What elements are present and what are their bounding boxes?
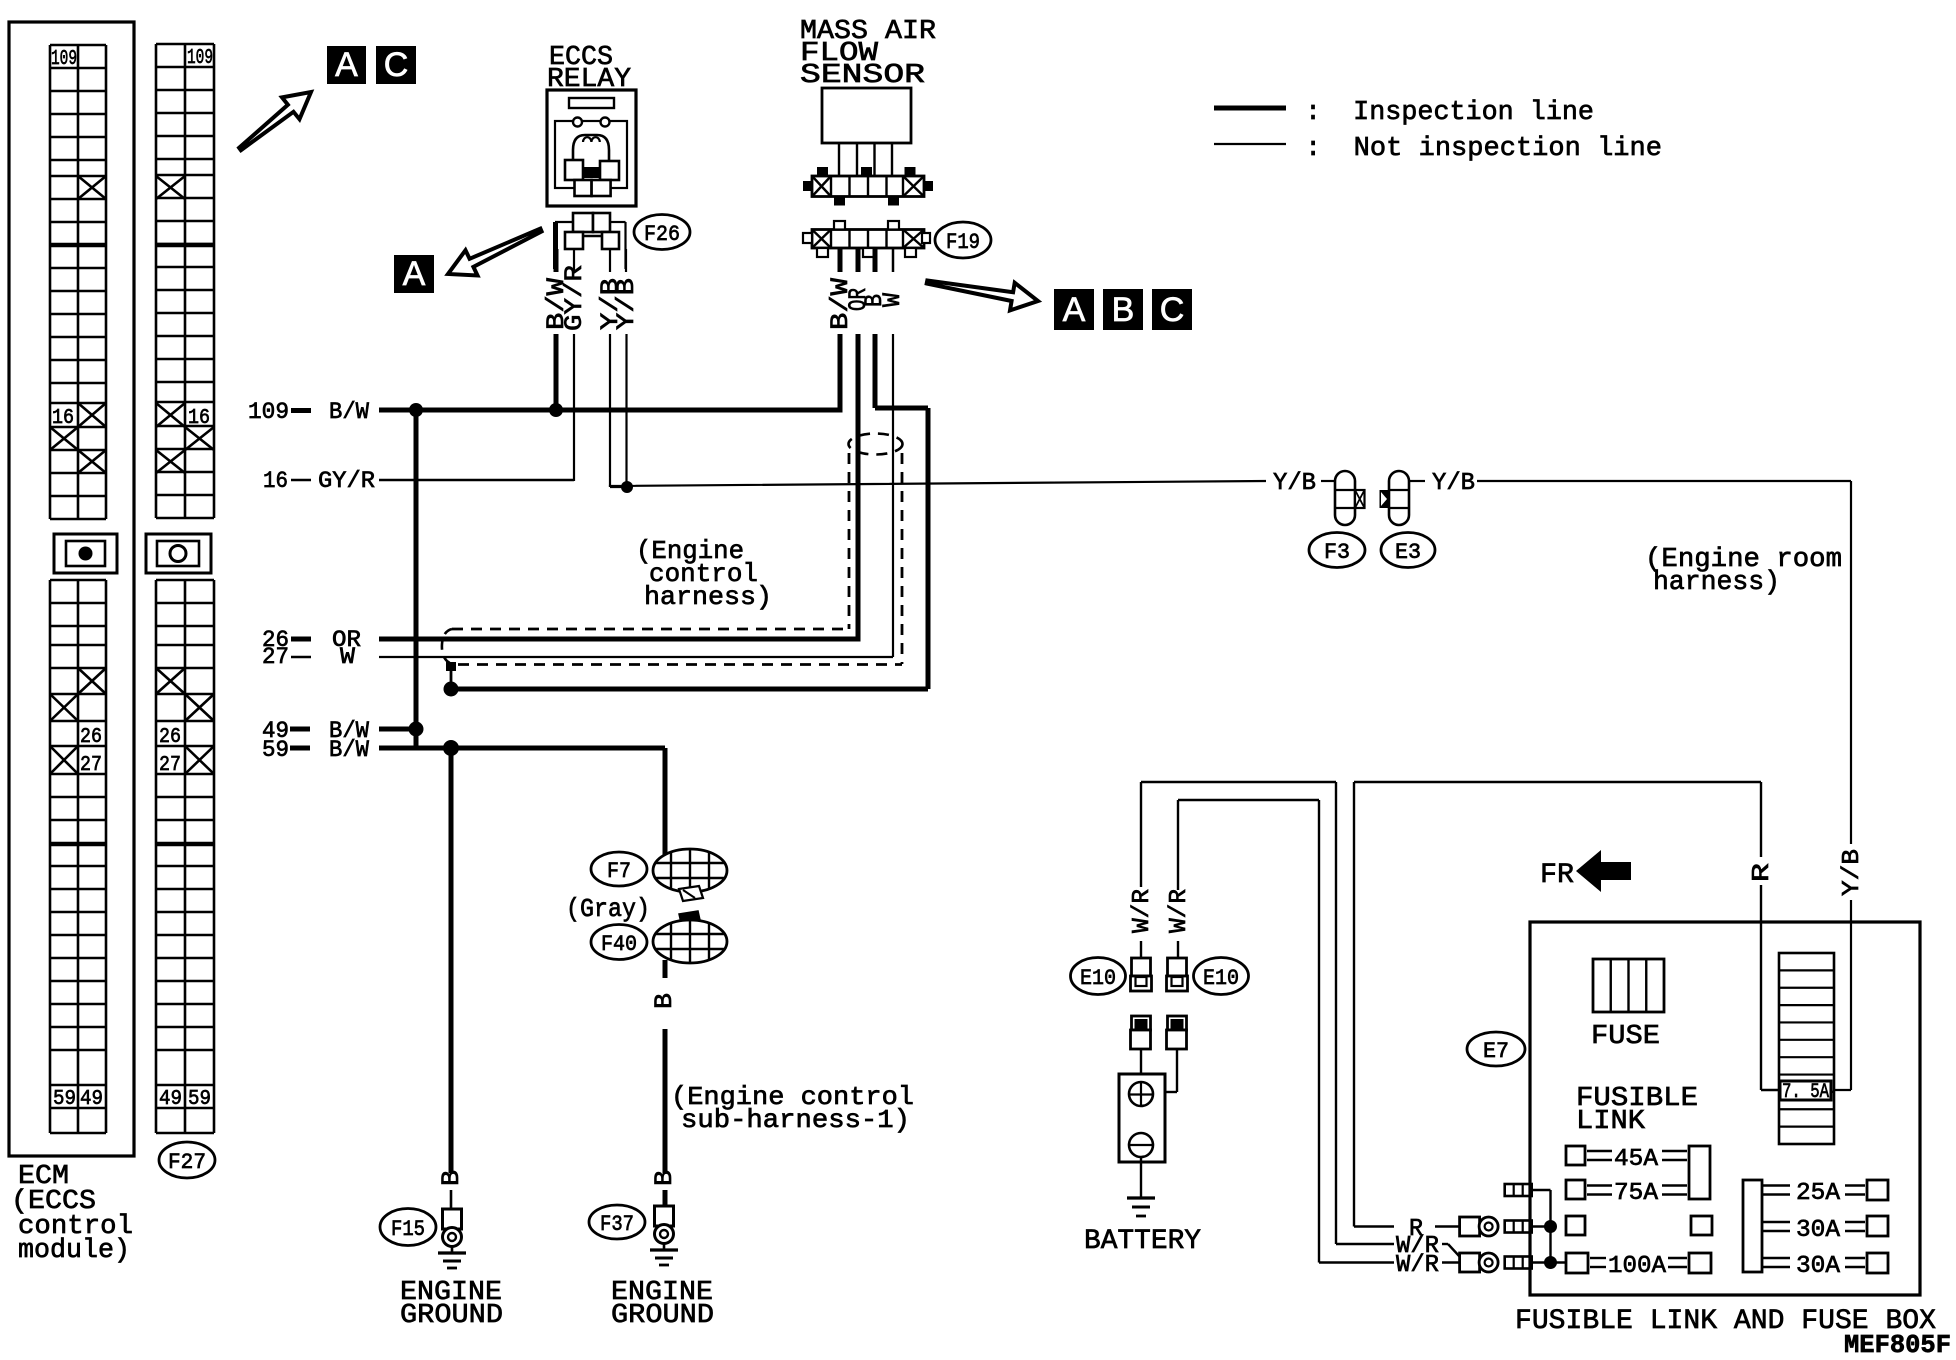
svg-text:A: A <box>335 46 358 84</box>
svg-text:W: W <box>878 293 907 307</box>
wire W/R inner loop <box>1178 800 1319 1263</box>
wire Y/B out of E3 <box>1409 480 1425 482</box>
ECM strip 1 pin numbers 109 16 26 27 59 49 <box>51 48 103 1111</box>
svg-text:B/W: B/W <box>329 399 369 425</box>
legend inspection line text <box>1305 98 1594 128</box>
ECCS relay U1 symbol <box>547 90 636 206</box>
junction dot fuse box (bottom) <box>1544 1256 1557 1269</box>
wire 16 GY/R horizontal <box>379 479 574 481</box>
F19 oval label <box>935 222 991 258</box>
node 109 B/W label <box>248 399 369 425</box>
svg-text:module): module) <box>18 1236 130 1266</box>
label Y/B (right side vertical) <box>1839 849 1866 896</box>
wire W/R middle lead <box>1336 1243 1394 1245</box>
svg-text:45A: 45A <box>1614 1146 1659 1173</box>
ring terminal (W/R leads) <box>1460 1253 1499 1272</box>
mass air flow sensor pins <box>839 143 892 176</box>
node 26 OR label <box>262 627 361 653</box>
relay wire Y/B-1 stub <box>609 249 611 272</box>
(Engine control sub-harness-1) caption <box>671 1082 914 1135</box>
svg-text:100A: 100A <box>1608 1253 1667 1280</box>
MASS AIR FLOW SENSOR title <box>800 17 936 91</box>
svg-text:7. 5A: 7. 5A <box>1782 1081 1829 1104</box>
MAF wire B stub <box>873 248 878 272</box>
spare squares row <box>1566 1216 1712 1235</box>
svg-text:E3: E3 <box>1395 540 1421 565</box>
ECM strip 1 keying box with black dot <box>54 534 117 573</box>
harness side connector F19 <box>803 221 930 257</box>
connector F7 (gray) hatched ellipse <box>653 849 727 901</box>
view box C (top) <box>376 46 416 84</box>
F15 oval label <box>380 1209 436 1246</box>
relay wire Y/B-2 stub <box>625 249 627 272</box>
label W/R (middle lead) <box>1396 1233 1439 1260</box>
label R (bottom lead) <box>1409 1216 1423 1243</box>
F40 oval label <box>591 925 647 960</box>
wire B right segment y408 <box>875 406 928 411</box>
svg-text:49: 49 <box>159 1088 182 1111</box>
connector half E3 capsule <box>1380 471 1410 525</box>
svg-text:16: 16 <box>263 468 288 494</box>
fuse box edge plug (bottom) <box>1505 1257 1532 1269</box>
ECM connector strip 1 grid <box>50 45 106 1133</box>
ECM connector strip 2 grid <box>156 44 214 1133</box>
(Engine control harness) caption <box>636 536 772 612</box>
wire ground bus y689 <box>451 687 928 692</box>
wire R bottom lead <box>1354 1225 1394 1227</box>
junction dot Y/B <box>621 481 633 493</box>
svg-text:Y/B: Y/B <box>1273 470 1316 497</box>
svg-text:Y/B: Y/B <box>612 278 641 330</box>
legend not-inspection line sample <box>1214 143 1286 145</box>
fuses 25A 30A 30A <box>1743 1180 1888 1280</box>
E10 oval label (left) <box>1071 958 1126 995</box>
junction dot ground bus <box>444 682 459 697</box>
svg-text:B: B <box>1112 291 1135 329</box>
label W/R (battery wire 1) <box>1129 889 1156 933</box>
MAF wire W stub <box>892 248 895 272</box>
wire R down into fuse box <box>1760 782 1762 857</box>
label W/R (battery wire 2) <box>1166 889 1193 933</box>
svg-text:SENSOR: SENSOR <box>800 61 925 91</box>
svg-text:B: B <box>650 993 679 1009</box>
svg-text:30A: 30A <box>1796 1253 1841 1280</box>
node 49 dash <box>290 727 310 732</box>
(Engine room harness) caption <box>1645 545 1842 598</box>
ENGINE GROUND caption (F37) <box>611 1278 714 1331</box>
wire R into 7.5A fuse <box>1761 1089 1779 1091</box>
wire 109 B/W horizontal <box>379 408 840 413</box>
view box A (top) <box>327 46 366 84</box>
mass air flow sensor body <box>822 88 911 143</box>
svg-text:harness): harness) <box>1653 568 1780 598</box>
fusible link and fuse box outline <box>1530 922 1920 1295</box>
MEF805F id code <box>1844 1330 1951 1360</box>
F26 oval label <box>634 215 690 250</box>
ECM strip 2 keying box with open circle <box>146 534 211 573</box>
svg-text:FR: FR <box>1540 860 1574 891</box>
junction dot fuse box (middle) <box>1544 1220 1557 1233</box>
svg-text:B: B <box>437 1170 466 1186</box>
node 109 dash <box>291 408 311 413</box>
svg-text:26: 26 <box>80 726 102 749</box>
wire Y/B horizontal to F3 <box>610 481 1266 487</box>
shield ground stub <box>446 662 456 689</box>
svg-text:25A: 25A <box>1796 1180 1841 1207</box>
MAF wire B/W drop <box>838 334 843 413</box>
ECM (ECCS control module) caption <box>11 1162 133 1266</box>
fusible link 100A <box>1566 1253 1711 1280</box>
battery symbol <box>1119 1074 1165 1162</box>
svg-text:75A: 75A <box>1614 1180 1659 1207</box>
wire W/R stub to E10 (2) <box>1177 941 1179 958</box>
svg-text:F37: F37 <box>600 1212 634 1237</box>
fuse box internal junction wires <box>1532 1190 1566 1263</box>
svg-text:109: 109 <box>187 47 213 70</box>
connector E10 halves (battery wire 1) <box>1131 958 1152 1049</box>
svg-text:27: 27 <box>159 754 181 777</box>
svg-text:W/R: W/R <box>1166 889 1193 933</box>
ECM strip 1 X marks <box>50 176 106 774</box>
svg-text:W/R: W/R <box>1129 889 1156 933</box>
F27 oval label <box>159 1142 215 1178</box>
connector F26 under relay <box>555 213 626 269</box>
wire E10 to battery (2) <box>1165 1049 1177 1092</box>
label R (fuse box top) <box>1749 863 1776 882</box>
node 59 dash <box>290 746 310 751</box>
relay wire Y/B-2 drop <box>625 334 627 487</box>
view box A (relay) <box>394 255 434 293</box>
svg-text:W/R: W/R <box>1396 1252 1439 1279</box>
ECM strip 2 X marks <box>156 176 214 774</box>
svg-text:F27: F27 <box>168 1150 206 1175</box>
svg-text:LINK: LINK <box>1576 1107 1646 1137</box>
junction dot 49 <box>409 722 424 737</box>
connector E10 halves (battery wire 2) <box>1167 958 1188 1049</box>
label GY/R (relay) <box>560 265 589 331</box>
label B (F15 wire) <box>437 1170 466 1186</box>
F37 oval label <box>589 1205 645 1239</box>
svg-text:FUSE: FUSE <box>1591 1022 1660 1052</box>
svg-text:Y/B: Y/B <box>1432 470 1475 497</box>
svg-text:F26: F26 <box>644 222 680 247</box>
wire x665 long drop <box>663 1029 668 1173</box>
node 26 dash <box>291 637 311 642</box>
svg-text:E10: E10 <box>1203 966 1239 991</box>
BATTERY caption <box>1084 1226 1201 1257</box>
svg-text:A: A <box>1063 291 1086 329</box>
svg-text:F15: F15 <box>391 1217 425 1242</box>
shield dashed outline around OR and W wires <box>442 434 903 665</box>
wire W/R bottom lead <box>1319 1261 1394 1263</box>
relay wire GY/R stub <box>573 249 575 272</box>
fuse box edge plug (middle) <box>1505 1221 1532 1233</box>
junction dot 109/relay B/W <box>549 403 563 417</box>
wire W/R left loop <box>1141 782 1336 1244</box>
FUSE caption <box>1591 1022 1660 1052</box>
node 16 GY/R label <box>263 468 375 494</box>
svg-text:GY/R: GY/R <box>318 468 375 494</box>
label B/W (relay) <box>542 278 571 330</box>
svg-text:F3: F3 <box>1324 540 1350 565</box>
legend inspection line sample <box>1214 106 1286 111</box>
F15 ground terminal and ground symbol <box>438 1209 466 1268</box>
relay wire Y/B-1 drop <box>609 334 611 487</box>
view boxes A B C (mass air flow sensor) <box>1054 289 1192 330</box>
svg-text:49: 49 <box>80 1088 103 1111</box>
label B (MAF) <box>860 294 889 307</box>
svg-text:C: C <box>1160 291 1185 329</box>
label W (MAF) <box>878 293 907 307</box>
wire Y/B into F3 <box>1321 480 1335 482</box>
svg-text:F7: F7 <box>607 859 631 884</box>
connector half F3 capsule <box>1335 471 1365 525</box>
wire Y/B to right edge <box>1477 480 1851 482</box>
arrow to view boxes A B C <box>927 281 1038 311</box>
ENGINE GROUND caption (F15) <box>400 1278 503 1331</box>
svg-text:E7: E7 <box>1483 1039 1509 1064</box>
svg-text:59: 59 <box>53 1088 76 1111</box>
MAF wire B drop <box>873 334 878 408</box>
FR caption <box>1540 860 1574 891</box>
svg-text:27: 27 <box>80 754 102 777</box>
svg-text:GROUND: GROUND <box>611 1301 714 1331</box>
wire E10 to battery (1) <box>1140 1049 1142 1082</box>
FUSIBLE LINK caption <box>1576 1084 1698 1137</box>
label Y/B (relay 2) <box>612 278 641 330</box>
F3 oval label <box>1309 533 1365 568</box>
svg-text:W: W <box>340 644 355 670</box>
connector F40 hatched ellipse <box>653 911 727 963</box>
svg-text:59: 59 <box>262 737 289 763</box>
wire W/R lead to terminal <box>1442 1261 1459 1263</box>
wire stub above F15 <box>450 1190 453 1209</box>
svg-text:: Not inspection line: : Not inspection line <box>1305 134 1662 164</box>
mass air flow sensor side connector <box>803 167 933 206</box>
FUSE block symbol <box>1593 959 1664 1012</box>
wire Y/B into 7.5A fuse <box>1833 1089 1851 1091</box>
ECM connector module outline box <box>9 22 134 1156</box>
svg-text:(Gray): (Gray) <box>566 894 650 924</box>
F37 ground terminal and ground symbol <box>650 1206 678 1265</box>
relay wire B/W stub <box>554 249 559 272</box>
svg-text:Y/B: Y/B <box>1839 849 1866 896</box>
svg-text:sub-harness-1): sub-harness-1) <box>681 1105 910 1135</box>
label Y/B (right of E3) <box>1432 470 1475 497</box>
F7 oval label <box>591 852 647 886</box>
label B/W (MAF) <box>826 278 855 330</box>
svg-text:16: 16 <box>188 407 210 430</box>
svg-text:GY/R: GY/R <box>560 265 589 331</box>
battery ground symbol <box>1127 1198 1155 1216</box>
node 27 dash <box>291 656 311 658</box>
svg-text:109: 109 <box>248 399 289 425</box>
(Gray) caption <box>566 894 650 924</box>
relay wire B/W drop <box>554 334 559 410</box>
wire R resume <box>1760 885 1762 1090</box>
MAF wire OR drop <box>856 334 861 642</box>
wire R top run <box>1354 782 1761 1227</box>
MAF wire OR stub <box>856 248 861 272</box>
wire 26 OR horizontal <box>379 637 858 642</box>
FUSIBLE LINK AND FUSE BOX caption <box>1515 1306 1936 1337</box>
wire stub above F37 <box>663 1190 668 1206</box>
wire ground branch drop x665 <box>663 748 668 858</box>
junction dot 59 <box>443 740 459 756</box>
wire 59 B/W horizontal <box>379 746 451 751</box>
svg-text:F40: F40 <box>601 932 637 957</box>
wire branch vertical x416 <box>414 410 419 729</box>
wire F15 drop x451 <box>449 748 454 1173</box>
svg-text:26: 26 <box>159 726 181 749</box>
label Y/B (relay 1) <box>596 278 625 330</box>
junction dot 109/branch <box>409 403 423 417</box>
node 49 B/W label <box>262 718 369 744</box>
MAF wire B/W stub <box>838 248 843 272</box>
wire Y/B resume to fuse box <box>1850 900 1852 1090</box>
svg-text:BATTERY: BATTERY <box>1084 1226 1201 1257</box>
label B (x665 upper) <box>650 993 679 1009</box>
svg-text:109: 109 <box>51 48 77 71</box>
label OR (MAF) <box>844 288 873 311</box>
svg-text:MEF805F: MEF805F <box>1844 1330 1951 1360</box>
node 16 dash <box>291 479 311 481</box>
svg-text:27: 27 <box>262 644 289 670</box>
svg-text:C: C <box>384 46 409 84</box>
svg-text:E10: E10 <box>1080 966 1116 991</box>
ECCS RELAY title <box>547 43 631 95</box>
wire 27 W horizontal <box>379 656 893 658</box>
wire Y/B down right side <box>1850 481 1852 844</box>
svg-text:harness): harness) <box>644 582 772 612</box>
svg-text:B: B <box>650 1170 679 1186</box>
fuse box edge plug (top) <box>1505 1184 1532 1196</box>
ECM strip 2 pin numbers 109 16 26 27 49 59 <box>159 47 213 1111</box>
svg-text:B/W: B/W <box>329 737 369 763</box>
fusible links 45A and 75A <box>1566 1146 1710 1207</box>
node 59 B/W label <box>262 737 369 763</box>
arrow to view box A (relay) <box>448 229 542 276</box>
wire stub below F40 <box>663 960 668 978</box>
wire W/R stub to E10 (1) <box>1140 941 1142 958</box>
svg-text:30A: 30A <box>1796 1217 1841 1244</box>
wire ground branch y748 <box>451 746 665 751</box>
MAF wire W drop <box>892 334 894 657</box>
svg-text:A: A <box>403 255 426 293</box>
svg-text:R: R <box>1749 863 1776 882</box>
wire W/R middle diagonal <box>1442 1244 1460 1257</box>
wire B vertical x928 <box>926 408 931 689</box>
label W/R (bottom lead) <box>1396 1252 1439 1279</box>
E3 oval label <box>1381 533 1435 568</box>
legend not-inspection line text <box>1305 134 1662 164</box>
label B (x665 lower) <box>650 1170 679 1186</box>
FR direction arrow (black) <box>1576 850 1631 892</box>
wire 49 B/W horizontal <box>379 727 416 732</box>
ring terminal (R lead) <box>1460 1217 1499 1236</box>
svg-text:16: 16 <box>52 407 74 430</box>
E10 oval label (right) <box>1194 958 1249 995</box>
label Y/B (left of F3) <box>1273 470 1316 497</box>
arrow to view boxes A C <box>239 92 311 150</box>
wire R lead to terminal <box>1435 1225 1459 1227</box>
E7 oval label <box>1467 1032 1525 1066</box>
svg-text:: Inspection line: : Inspection line <box>1305 98 1594 128</box>
battery ground wire <box>1140 1157 1142 1197</box>
node 27 W label <box>262 644 355 670</box>
wire 49-59 link stub <box>414 729 419 748</box>
relay wire GY/R drop <box>573 334 575 481</box>
7.5A fuse strip <box>1779 953 1834 1144</box>
svg-text:F19: F19 <box>946 230 980 255</box>
svg-text:59: 59 <box>188 1088 211 1111</box>
svg-text:GROUND: GROUND <box>400 1301 503 1331</box>
